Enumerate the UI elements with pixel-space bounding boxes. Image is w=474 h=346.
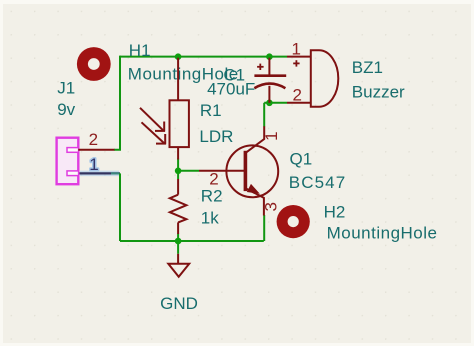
svg-text:Buzzer: Buzzer bbox=[352, 82, 405, 101]
wire base junction to Q1 base pin bbox=[178, 170, 199, 172]
wire bottom rail junction to GND stub bbox=[177, 241, 179, 254]
capacitor C1 top lead bbox=[268, 58, 270, 75]
capacitor C1 plus sign bbox=[257, 64, 264, 70]
junction at R1 top bbox=[175, 53, 182, 60]
buzzer BZ1 body bbox=[311, 50, 338, 106]
buzzer BZ1 pin 2 line bbox=[287, 102, 311, 104]
svg-text:GND: GND bbox=[160, 294, 198, 313]
svg-text:Q1: Q1 bbox=[290, 150, 313, 169]
svg-text:BC547: BC547 bbox=[289, 173, 346, 192]
capacitor C1 top plate bbox=[254, 74, 286, 77]
junction at C1 bottom bbox=[266, 100, 273, 107]
wire R2 bottom to bottom rail bbox=[177, 234, 179, 242]
buzzer BZ1 pin 1 line bbox=[287, 56, 311, 58]
svg-text:H1: H1 bbox=[129, 41, 151, 60]
wire from J1 pin 1 down to bottom rail (selected, highlighted) bbox=[80, 171, 119, 177]
svg-text:LDR: LDR bbox=[199, 127, 233, 146]
svg-text:1: 1 bbox=[262, 131, 281, 140]
resistor R2 top pin bbox=[177, 179, 179, 195]
mounting hole H2 bbox=[277, 205, 310, 238]
resistor R2 bottom pin bbox=[177, 222, 179, 234]
svg-text:2: 2 bbox=[89, 130, 98, 149]
svg-text:MountingHole: MountingHole bbox=[327, 224, 438, 243]
transistor Q1 base bar bbox=[244, 151, 248, 191]
connector J1 body bbox=[57, 138, 79, 185]
wire left vertical from top rail to J1 pin 2 bbox=[114, 56, 120, 150]
svg-text:H2: H2 bbox=[324, 203, 346, 222]
wire R1 bottom to base junction bbox=[177, 159, 179, 172]
mounting hole H1 bbox=[77, 47, 111, 81]
resistor R1 bottom pin bbox=[177, 147, 179, 159]
capacitor C1 bottom lead bbox=[268, 86, 270, 103]
transistor Q1 base pin bbox=[199, 170, 245, 172]
transistor Q1 emitter arrow bbox=[248, 185, 259, 193]
svg-text:1: 1 bbox=[291, 40, 300, 59]
svg-text:1: 1 bbox=[89, 155, 98, 174]
junction at base node bbox=[175, 168, 182, 175]
wire base junction down to R2 bbox=[177, 171, 179, 179]
J1 pin 2 line bbox=[78, 149, 114, 151]
ground symbol stub bbox=[177, 254, 179, 264]
svg-text:9v: 9v bbox=[57, 100, 75, 119]
buzzer BZ1 plus sign bbox=[293, 60, 299, 66]
wire collector drop bbox=[263, 103, 265, 127]
resistor R1 (LDR) top pin bbox=[177, 58, 179, 101]
junction at bottom rail / GND bbox=[175, 238, 182, 245]
ground symbol triangle bbox=[168, 264, 189, 277]
transistor Q1 collector pin bbox=[247, 126, 265, 152]
LDR arrow 2 bbox=[142, 122, 167, 144]
svg-text:470uF: 470uF bbox=[207, 79, 255, 98]
svg-text:2: 2 bbox=[292, 85, 301, 104]
resistor R2 zigzag body bbox=[170, 195, 187, 223]
svg-text:3: 3 bbox=[262, 202, 281, 211]
wire emitter to bottom rail bbox=[263, 215, 265, 241]
svg-text:J1: J1 bbox=[57, 78, 75, 97]
junction at C1 top bbox=[266, 53, 273, 60]
svg-text:R1: R1 bbox=[200, 101, 222, 120]
transistor Q1 circle bbox=[226, 145, 278, 197]
svg-text:R2: R2 bbox=[201, 186, 223, 205]
wire C1 bottom row to buzzer pin 2 bbox=[264, 102, 287, 104]
svg-text:BZ1: BZ1 bbox=[352, 58, 383, 77]
svg-text:1k: 1k bbox=[201, 208, 219, 227]
resistor R1 body bbox=[170, 100, 189, 147]
wire top rail bbox=[120, 56, 287, 58]
wire bottom rail bbox=[120, 240, 264, 242]
transistor Q1 emitter bbox=[247, 189, 264, 216]
capacitor C1 bottom curved plate bbox=[254, 84, 285, 89]
LDR arrow 1 bbox=[140, 108, 165, 132]
